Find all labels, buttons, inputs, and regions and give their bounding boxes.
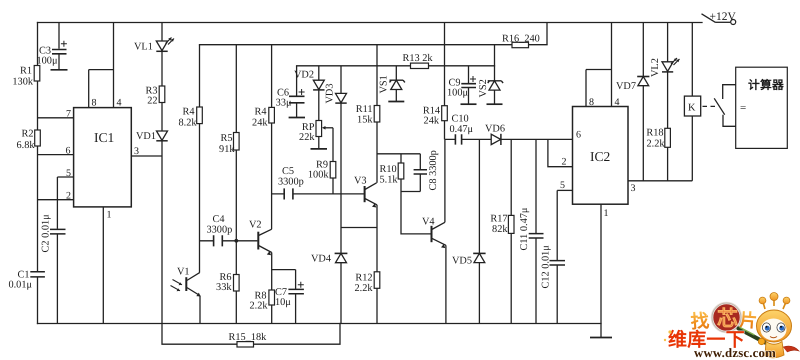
diode VD2 xyxy=(294,66,325,121)
svg-text:R10: R10 xyxy=(380,164,397,175)
IC U1 box IC1 xyxy=(74,108,132,207)
computer box 计算器 xyxy=(736,67,788,148)
svg-text:IC2: IC2 xyxy=(590,149,610,164)
wire IC1 pin 2 xyxy=(38,199,74,201)
svg-text:VD5: VD5 xyxy=(452,256,472,267)
wire IC1 pin 8 xyxy=(88,70,90,108)
watermark logo dzsc xyxy=(664,293,799,360)
svg-text:VD4: VD4 xyxy=(311,254,331,265)
wire IC1 pin 5 xyxy=(57,176,73,178)
wire left bus upper xyxy=(37,23,39,272)
resistor R17 xyxy=(490,139,514,323)
IC U2 box IC2 xyxy=(573,107,629,205)
wire IC2 pin 3 xyxy=(628,180,692,182)
resistor R3 xyxy=(145,86,164,131)
svg-text:R12: R12 xyxy=(355,273,372,284)
svg-text:100k: 100k xyxy=(308,170,329,181)
svg-text:4: 4 xyxy=(615,97,620,108)
svg-text:2: 2 xyxy=(66,191,71,202)
svg-text:6: 6 xyxy=(66,146,71,157)
svg-text:2.2k: 2.2k xyxy=(249,301,268,312)
svg-text:3300p: 3300p xyxy=(278,177,304,188)
svg-text:R17: R17 xyxy=(490,214,507,225)
ground symbol xyxy=(590,337,612,339)
svg-text:33k: 33k xyxy=(216,282,232,293)
capacitor C11 xyxy=(519,139,544,323)
wire C10/VD6 pin6 line xyxy=(445,138,573,140)
capacitor C8 xyxy=(401,150,439,191)
svg-text:K: K xyxy=(688,103,696,114)
svg-text:15k: 15k xyxy=(357,115,373,126)
svg-text:2.2k: 2.2k xyxy=(354,283,373,294)
svg-text:V3: V3 xyxy=(354,176,367,187)
junction node C4/R5/R6 xyxy=(234,239,238,243)
svg-text:V1: V1 xyxy=(177,267,190,278)
relay K box xyxy=(684,23,700,181)
resistor R4 24k xyxy=(252,45,274,230)
diode VD7 xyxy=(616,23,649,181)
svg-text:R1: R1 xyxy=(20,66,32,77)
svg-text:C12 0.01μ: C12 0.01μ xyxy=(541,245,552,289)
capacitor C10 xyxy=(450,114,474,145)
svg-text:130k: 130k xyxy=(12,77,33,88)
svg-text:VS2: VS2 xyxy=(478,79,489,97)
capacitor C4 xyxy=(200,214,237,246)
wire IC2 pin 1 to ground xyxy=(600,204,602,337)
svg-text:7: 7 xyxy=(66,109,71,120)
svg-text:C4: C4 xyxy=(213,214,225,225)
zener VS1 xyxy=(379,66,405,102)
svg-text:VS1: VS1 xyxy=(379,75,390,93)
svg-text:82k: 82k xyxy=(492,224,508,235)
svg-text:VD6: VD6 xyxy=(485,124,505,135)
svg-text:6.8k: 6.8k xyxy=(16,140,35,151)
wire IC2 pin 2 step xyxy=(548,139,573,166)
potentiometer RP xyxy=(299,121,333,162)
switch +12V xyxy=(702,11,737,25)
resistor R4 8.2k xyxy=(178,45,202,273)
relay contact xyxy=(714,85,737,127)
svg-text:R4: R4 xyxy=(182,107,194,118)
LED VL1 + wire xyxy=(134,23,174,87)
capacitor C7 xyxy=(275,270,304,324)
wire R10 bottom to V4 base xyxy=(401,192,431,234)
mascot xyxy=(757,293,800,358)
svg-text:8: 8 xyxy=(589,97,594,108)
wire bottom ground rail xyxy=(38,323,602,325)
svg-text:10μ: 10μ xyxy=(275,297,291,308)
dashed link K to contact xyxy=(703,105,717,107)
capacitor C2 xyxy=(41,177,66,324)
zener VS2 xyxy=(478,45,503,104)
wire V3 base line xyxy=(272,193,364,195)
LED VL2 xyxy=(650,23,680,129)
wire V2 emitter to R8/C7 xyxy=(272,253,296,270)
svg-text:VD2: VD2 xyxy=(294,70,314,81)
wire IC2 pin 5 xyxy=(557,189,572,191)
svg-text:100μ: 100μ xyxy=(37,56,58,67)
diode VD1 xyxy=(136,131,168,324)
svg-text:R15_18k: R15_18k xyxy=(229,332,268,343)
svg-text:R5: R5 xyxy=(220,133,232,144)
svg-text:91k: 91k xyxy=(219,144,235,155)
wire second rail xyxy=(200,44,548,46)
resistor R10 xyxy=(380,154,404,192)
wire R10/C8 top xyxy=(377,153,420,155)
resistor R11 xyxy=(356,45,380,183)
wire IC1 pin 1 xyxy=(102,207,104,324)
capacitor C12 xyxy=(541,190,566,323)
svg-text:V2: V2 xyxy=(249,220,262,231)
svg-text:0.47μ: 0.47μ xyxy=(450,124,474,135)
svg-text:VD7: VD7 xyxy=(616,81,636,92)
resistor R15 xyxy=(229,332,268,347)
resistor R9 xyxy=(308,160,336,194)
svg-text:1: 1 xyxy=(107,210,112,221)
svg-text:C2 0.01μ: C2 0.01μ xyxy=(41,214,52,253)
svg-text:5.1k: 5.1k xyxy=(380,175,399,186)
wire IC1 pin 4 to rail xyxy=(89,23,114,108)
capacitor C5 xyxy=(278,166,304,200)
svg-text:2.2k: 2.2k xyxy=(646,139,665,150)
svg-text:R4: R4 xyxy=(254,107,266,118)
svg-text:计算器: 计算器 xyxy=(748,78,784,92)
svg-text:+12V: +12V xyxy=(710,11,737,23)
capacitor C1 xyxy=(8,270,44,291)
svg-text:VL2: VL2 xyxy=(650,58,661,77)
wire V4 collector xyxy=(444,139,446,222)
wire IC2 pin 8 xyxy=(585,70,587,107)
svg-text:4: 4 xyxy=(117,98,122,109)
resistor R12 xyxy=(354,228,379,324)
wire IC1 pin 3 xyxy=(131,155,162,157)
resistor R18 xyxy=(646,128,670,181)
resistor R8 xyxy=(249,270,274,324)
svg-text:6: 6 xyxy=(576,130,581,141)
resistor R1 xyxy=(12,66,39,88)
resistor R13 xyxy=(403,53,434,69)
svg-text:VD3: VD3 xyxy=(325,83,336,103)
svg-text:V4: V4 xyxy=(422,217,435,228)
svg-text:VD1: VD1 xyxy=(136,131,156,142)
svg-text:8.2k: 8.2k xyxy=(178,118,197,129)
svg-text:24k: 24k xyxy=(252,118,268,129)
svg-text:8: 8 xyxy=(92,98,97,109)
svg-text:C11 0.47μ: C11 0.47μ xyxy=(519,207,530,250)
capacitor C9 xyxy=(447,66,476,104)
diode VD6 xyxy=(485,124,505,146)
svg-text:0.01μ: 0.01μ xyxy=(8,280,32,291)
svg-text:R2: R2 xyxy=(21,129,33,140)
diode VD5 xyxy=(452,139,486,323)
svg-text:33μ: 33μ xyxy=(276,98,292,109)
transistor V3 xyxy=(354,176,377,208)
svg-text:24k: 24k xyxy=(424,116,440,127)
resistor R2 xyxy=(16,129,40,152)
resistor R6 xyxy=(216,241,239,324)
wire IC1 pin 7 xyxy=(38,117,74,119)
svg-text:5: 5 xyxy=(66,168,71,179)
diode VD3 xyxy=(325,66,347,228)
wire IC1 pin 6 xyxy=(38,154,74,156)
svg-text:R11: R11 xyxy=(356,104,373,115)
svg-text:22k: 22k xyxy=(299,132,315,143)
svg-text:C5: C5 xyxy=(282,166,294,177)
svg-text:R16_240: R16_240 xyxy=(502,34,540,45)
wire V3 emitter xyxy=(341,205,377,228)
svg-text:100μ: 100μ xyxy=(447,88,468,99)
svg-text:5: 5 xyxy=(560,180,565,191)
wire R13 sub-rail xyxy=(297,65,495,67)
svg-text:C8 3300p: C8 3300p xyxy=(428,150,439,190)
wire V2 base xyxy=(236,240,257,242)
resistor R14 column from top rail xyxy=(423,23,447,140)
diode VD4 xyxy=(311,228,347,324)
svg-text:3300p: 3300p xyxy=(207,225,233,236)
resistor R5 xyxy=(219,45,239,241)
transistor V4 xyxy=(422,217,446,249)
svg-text:IC1: IC1 xyxy=(94,130,114,145)
wire R15 loop xyxy=(162,324,340,345)
capacitor C3 + wire xyxy=(37,23,68,70)
svg-text:22: 22 xyxy=(147,96,157,107)
svg-text:1: 1 xyxy=(604,208,609,219)
svg-text:芯: 芯 xyxy=(717,307,738,331)
wire top +12V rail xyxy=(38,22,703,24)
wire left bus lower xyxy=(37,277,39,323)
svg-text:VL1: VL1 xyxy=(134,42,153,53)
transistor V2 xyxy=(249,220,272,256)
svg-text:3: 3 xyxy=(631,183,636,194)
svg-text:=: = xyxy=(740,102,746,114)
svg-text:R18: R18 xyxy=(646,128,663,139)
wire IC2 pin 4 to rail xyxy=(586,23,612,107)
svg-text:R13 2k: R13 2k xyxy=(403,53,434,64)
svg-text:3: 3 xyxy=(134,146,139,157)
capacitor C6 xyxy=(276,66,305,118)
svg-text:2: 2 xyxy=(562,157,567,168)
svg-text:www.dzsc.com: www.dzsc.com xyxy=(694,346,776,360)
phototransistor V1 xyxy=(171,267,201,324)
resistor R16 xyxy=(502,23,547,48)
svg-text:C10: C10 xyxy=(452,114,469,125)
wire V4 emitter xyxy=(445,245,447,323)
